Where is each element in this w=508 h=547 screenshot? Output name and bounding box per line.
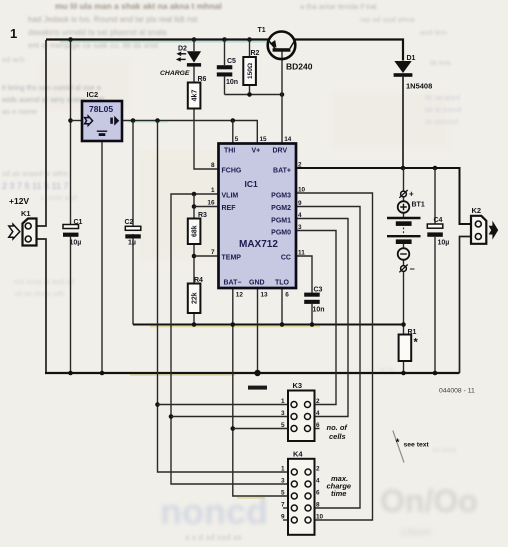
wire K3 pin3 [171, 416, 291, 418]
svg-text:K1: K1 [21, 209, 31, 218]
diode D1 [394, 55, 433, 91]
node junction D1 battery [401, 166, 406, 171]
cyan scanner tint on top rail [60, 41, 270, 43]
svg-text:+12V: +12V [9, 196, 29, 206]
wire +5V drop to K3/K4 pin1 [158, 121, 292, 473]
svg-text:2: 2 [298, 162, 302, 169]
svg-text:THI: THI [224, 148, 235, 155]
svg-text:VLIM: VLIM [222, 192, 239, 199]
svg-text:7: 7 [281, 502, 285, 509]
svg-text:DRV: DRV [273, 148, 288, 155]
svg-text:6: 6 [316, 422, 320, 429]
wire R2 top lead [249, 40, 251, 58]
wire IC2 input [71, 120, 83, 122]
svg-text:1µ: 1µ [128, 240, 136, 247]
svg-text:+: + [409, 190, 414, 199]
svg-text:W. se aned: W. se aned [425, 95, 460, 102]
wire REF pin16 [194, 206, 219, 208]
svg-text:9: 9 [281, 514, 285, 521]
wire T1 base to DRV pin14 [281, 52, 283, 144]
node junction IC2 ground [100, 371, 105, 376]
svg-text:3: 3 [298, 224, 302, 231]
svg-text:noncd: noncd [160, 491, 268, 532]
connector K3 [281, 381, 320, 441]
wire K4 pin7 stub [283, 507, 292, 509]
svg-text:a s d sd ssd as: a s d sd ssd as [185, 533, 242, 542]
node junction IC2 input tap [68, 118, 73, 123]
wire THI pin5 lead [232, 121, 234, 144]
svg-text:C5: C5 [227, 58, 236, 65]
wire C2 top lead [132, 121, 134, 227]
resistor R3 [188, 212, 207, 244]
connector K4 [281, 450, 324, 535]
svg-text:68k: 68k [191, 225, 198, 237]
capacitor C2 [125, 219, 141, 247]
wire +12V drop to C1 and IC2 input [70, 40, 72, 225]
svg-text:R6: R6 [198, 76, 207, 83]
wire BAT- pin12 drop to K4 pin5 [233, 288, 291, 496]
node junction T1 base line [280, 92, 285, 97]
resistor R6 [188, 76, 207, 109]
svg-text:6: 6 [316, 490, 320, 497]
svg-text:7: 7 [211, 249, 215, 256]
svg-text:TEMP: TEMP [222, 255, 242, 262]
wire battery internal leads [403, 197, 405, 335]
svg-text:R1: R1 [408, 329, 417, 336]
svg-text:ction: ction [400, 524, 431, 539]
svg-text:15: 15 [260, 136, 268, 143]
wire R4 bottom to BAT- line [193, 313, 195, 325]
wire K4 pin9 stub [283, 519, 292, 521]
svg-text:sd as snaed le siths: sd as snaed le siths [2, 169, 68, 178]
node junction D2 tap [192, 37, 197, 42]
svg-text:BAT+: BAT+ [273, 167, 291, 174]
resistor R1 [399, 329, 419, 361]
svg-text:R3: R3 [198, 212, 207, 219]
svg-text:R2: R2 [251, 50, 260, 57]
svg-text:10n: 10n [313, 307, 325, 314]
wire GND pin13 to ground rail [257, 288, 259, 373]
svg-text:On/Oo: On/Oo [380, 483, 478, 519]
svg-text:IC2: IC2 [87, 90, 99, 99]
wire PGM1 pin4 to K3 pin4 [296, 219, 348, 417]
svg-text:time: time [331, 489, 346, 498]
wire +12V top rail left segment [46, 38, 268, 40]
node junction main ground [254, 370, 260, 376]
node junction TEMP [192, 254, 197, 259]
wire C5 R2 to T1 base line [225, 94, 283, 96]
see text note [393, 431, 430, 463]
voltage regulator IC2 78L05 [82, 90, 122, 141]
wire BAT+ from pin2 to K2 [296, 168, 473, 224]
svg-text:1: 1 [10, 26, 17, 41]
svg-text:11: 11 [298, 250, 305, 257]
svg-text:BT1: BT1 [412, 202, 425, 209]
svg-text:a tha antar tensla if tral: a tha antar tensla if tral [300, 2, 377, 11]
wire C3 bottom to BAT- [311, 304, 313, 325]
node junction top rail x70 [68, 37, 73, 42]
node junction VLIM REF link [192, 192, 197, 197]
node junction C2 tap [131, 118, 136, 123]
battery BT1 [387, 190, 425, 275]
wire IC2 ground lead [101, 141, 103, 373]
ground rail [45, 372, 460, 374]
svg-text:had Jedask is tvs. Round and l: had Jedask is tvs. Round and lar pis rea… [28, 15, 198, 24]
svg-text:4k7: 4k7 [191, 90, 198, 102]
wire R2 bottom lead [249, 85, 251, 95]
svg-text:K4: K4 [293, 450, 303, 459]
capacitor C3 [304, 287, 324, 314]
node junction C1 ground [68, 371, 73, 376]
connector K2 [471, 206, 486, 244]
wire C5 top lead [224, 40, 226, 66]
svg-text:*: * [414, 337, 419, 349]
wire C4 leads [434, 168, 436, 373]
wire TEMP pin7 [194, 255, 219, 257]
svg-text:9: 9 [298, 200, 302, 207]
svg-text:10µ: 10µ [70, 240, 82, 247]
svg-text:4: 4 [316, 478, 320, 485]
capacitor C5 [217, 58, 238, 86]
capacitor C4 [427, 217, 449, 247]
node junction C4 ground [433, 371, 438, 376]
wire C2 bottom to BAT- line [132, 234, 134, 325]
svg-text:6: 6 [285, 292, 289, 299]
wire BAT- line [133, 324, 404, 326]
wire K4 pin2 stub [311, 471, 316, 473]
wire D2 cathode to R6 [193, 67, 195, 83]
svg-text:PGM2: PGM2 [271, 205, 291, 212]
wire PGM0 pin3 to K3 pin2 [296, 231, 336, 405]
node junction C5 tap [222, 37, 227, 42]
wire VLIM pin1 to header column [171, 194, 291, 484]
svg-text:14: 14 [284, 136, 292, 143]
svg-text:10: 10 [316, 514, 324, 521]
svg-text:150Ω: 150Ω [247, 63, 254, 79]
svg-text:R4: R4 [194, 277, 203, 284]
svg-text:D2: D2 [178, 46, 187, 53]
svg-text:REF: REF [222, 205, 237, 212]
node junction REF [192, 204, 197, 209]
svg-text:ed ach: ed ach [2, 55, 25, 64]
svg-text:see text: see text [404, 442, 430, 449]
svg-text:V+: V+ [252, 148, 261, 155]
connector K1 [9, 196, 37, 246]
IC1 MAX712 [207, 136, 305, 299]
svg-text:CC: CC [281, 255, 291, 262]
ground symbol bar [248, 386, 267, 390]
svg-text:ta sva.: ta sva. [430, 58, 452, 67]
wire K1 pin1 to top rail [37, 40, 46, 226]
node junction THI tap [231, 118, 236, 123]
node junction C4 top [433, 166, 438, 171]
wire R1 bottom lead [403, 361, 405, 373]
svg-text:3: 3 [281, 410, 285, 417]
wire K3 pin1 [158, 404, 291, 406]
svg-text:5: 5 [281, 490, 285, 497]
svg-text:cells: cells [329, 432, 346, 441]
svg-text:−: − [410, 264, 415, 274]
svg-text:K3: K3 [293, 381, 303, 390]
svg-text:5: 5 [281, 422, 285, 429]
svg-text:mu lil ula man a shak akt na a: mu lil ula man a shak akt na akna t mhna… [55, 1, 222, 11]
svg-text:1: 1 [281, 398, 285, 405]
svg-text:C1: C1 [74, 219, 83, 226]
svg-text:5: 5 [235, 136, 239, 143]
wire K2 pin2 to ground rail [460, 237, 473, 374]
svg-text:10: 10 [298, 187, 306, 194]
svg-text:8: 8 [211, 162, 215, 169]
svg-text:10n: 10n [226, 79, 238, 86]
wire K4 pin4 stub [311, 483, 316, 485]
svg-text:1: 1 [211, 187, 215, 194]
svg-text:PGM3: PGM3 [271, 192, 291, 199]
svg-text:BD240: BD240 [286, 62, 313, 72]
wire TLO pin6 to BAT- [281, 288, 283, 325]
node junction pin12 BAT- [231, 322, 236, 327]
resistor R2 [243, 50, 259, 85]
node junction +5V header drop tap [155, 118, 160, 123]
svg-text:16: 16 [207, 200, 215, 207]
svg-text:1: 1 [281, 466, 285, 473]
svg-text:MAX712: MAX712 [239, 239, 278, 250]
svg-text:2 3 7 5 11 5 11 7: 2 3 7 5 11 5 11 7 [2, 181, 69, 191]
svg-text:ds weansd: ds weansd [425, 119, 459, 126]
svg-text:FCHG: FCHG [222, 167, 242, 174]
svg-text:C2: C2 [125, 219, 134, 226]
node junction R2 tap [247, 37, 252, 42]
svg-text:*: * [396, 438, 400, 449]
wire R6 to FCHG pin8 [194, 109, 219, 170]
svg-text:PGM1: PGM1 [271, 217, 291, 224]
svg-text:and tinn: and tinn [420, 28, 447, 37]
svg-text:as e nome: as e nome [2, 107, 37, 116]
svg-text:1N5408: 1N5408 [406, 82, 432, 91]
svg-text:C4: C4 [434, 217, 443, 224]
svg-text:10µ: 10µ [438, 240, 450, 247]
svg-text:sd as dsna sdh: sd as dsna sdh [14, 289, 64, 298]
capacitor C1 [63, 219, 83, 247]
node junction K3 pin5 [231, 426, 236, 431]
svg-text:8: 8 [316, 502, 320, 509]
node junction K3 pin1 [155, 402, 160, 407]
svg-text:BAT−: BAT− [224, 280, 242, 287]
node junction K3 pin3 [169, 414, 174, 419]
svg-text:IC1: IC1 [245, 179, 259, 189]
svg-text:3: 3 [281, 478, 285, 485]
node junction R1 ground [401, 371, 406, 376]
wire REF link R3 top [193, 194, 195, 219]
wire D2 anode lead [193, 40, 195, 52]
input arrow at K1 [9, 224, 20, 239]
transistor T1 BD240 [258, 27, 313, 72]
wire K3 pin6 stub [311, 428, 320, 430]
node junction TLO BAT- [280, 322, 285, 327]
svg-text:12: 12 [236, 292, 244, 299]
svg-text:PGM0: PGM0 [271, 229, 291, 236]
output arrow at K2 [489, 221, 499, 240]
LED D2 [160, 46, 201, 77]
node junction battery BAT- [401, 322, 406, 327]
node junction R4 BAT- [192, 322, 197, 327]
svg-text:2: 2 [316, 466, 320, 473]
wire K1 pin2 to ground rail [37, 239, 46, 373]
wire IC2 output +5V to V+ pin15 [122, 121, 257, 144]
svg-text:044008 - 11: 044008 - 11 [439, 388, 475, 395]
node junction R2 base line [247, 92, 252, 97]
svg-text:no. of: no. of [327, 423, 349, 432]
wire R3 bottom to R4 top [193, 244, 195, 284]
svg-text:C3: C3 [314, 287, 323, 294]
svg-text:22k: 22k [191, 292, 198, 304]
wire C1 bottom to ground [70, 237, 72, 373]
svg-text:4: 4 [298, 212, 302, 219]
resistor R4 [188, 277, 203, 313]
svg-text:ms snsa al asd sd: ms snsa al asd sd [14, 277, 74, 286]
svg-text:2: 2 [316, 398, 320, 405]
svg-text:T1: T1 [258, 27, 266, 34]
svg-text:GND: GND [249, 280, 265, 287]
wire C5 bottom lead [224, 77, 226, 95]
wire K3 pin5 [233, 428, 291, 430]
wire CC pin11 to C3 [296, 256, 312, 293]
svg-text:4: 4 [316, 410, 320, 417]
wire PGM2 pin9 to K4 pin8 [296, 207, 360, 509]
svg-text:D1: D1 [407, 55, 416, 62]
wire +12V top rail right segment to D1 [295, 40, 403, 61]
svg-text:sd ssna: sd ssna [432, 447, 456, 454]
svg-text:13: 13 [261, 292, 269, 299]
svg-text:dasakiris unnald ta sat pliasn: dasakiris unnald ta sat pliasnst al snal… [28, 28, 167, 37]
svg-text:CHARGE: CHARGE [160, 70, 190, 77]
wire battery top lead [403, 168, 405, 191]
wire PGM3 pin10 to K4 pin10 [296, 193, 373, 520]
svg-text:ter ld snesd: ter ld snesd [425, 107, 461, 114]
wire D1 cathode to BAT+ [402, 77, 404, 168]
svg-text:K2: K2 [472, 206, 482, 215]
svg-text:ras sd ssal ahna: ras sd ssal ahna [360, 15, 415, 24]
wire K4 pin6 stub [311, 495, 316, 497]
svg-text:TLO: TLO [275, 280, 290, 287]
node junction C3 BAT- [310, 322, 315, 327]
svg-text:78L05: 78L05 [89, 104, 113, 114]
